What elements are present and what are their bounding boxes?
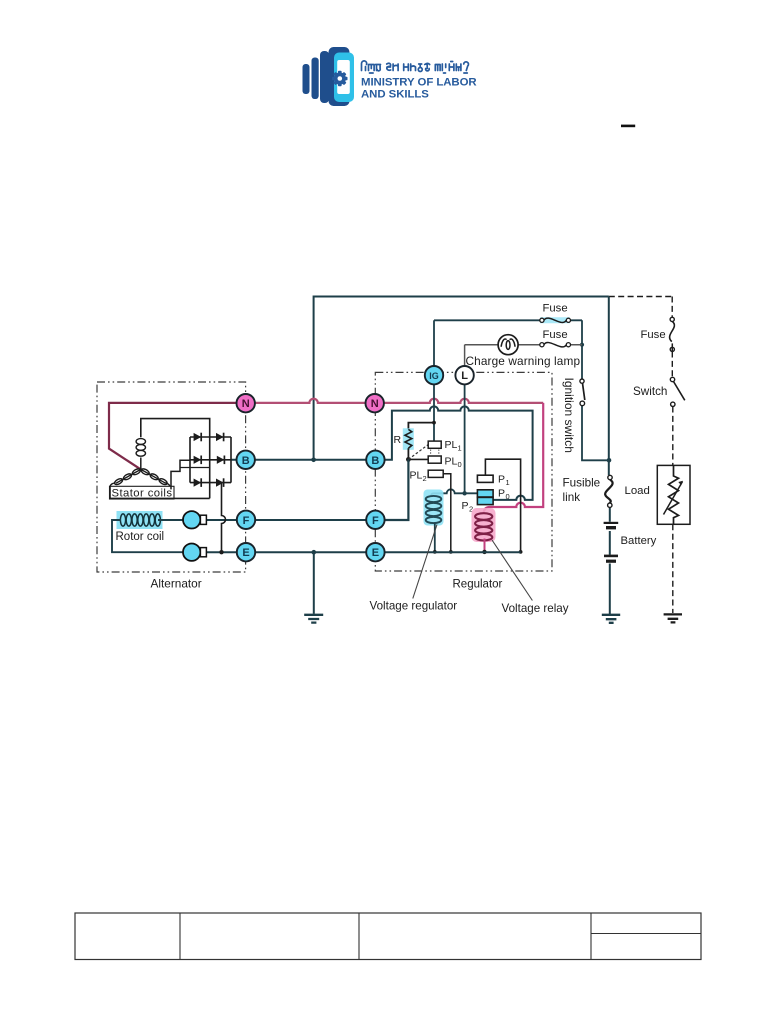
svg-text:Ignition switch: Ignition switch (562, 378, 576, 453)
wire rotor to F brush (158, 519, 183, 521)
wire battery feed (609, 297, 610, 615)
voltage relay coil (475, 513, 492, 540)
node E ground junction (312, 550, 317, 555)
stator top coil (136, 439, 145, 457)
svg-text:Charge warning lamp: Charge warning lamp (466, 354, 581, 368)
wire B to P0 (teal) (384, 406, 532, 499)
node relay bottom (482, 550, 486, 554)
terminal E (alternator) (237, 543, 255, 561)
logo screen (337, 60, 350, 94)
charge warning lamp (498, 335, 518, 355)
wire IG to PL1 (433, 385, 435, 442)
svg-text:F: F (243, 515, 250, 527)
voltage relay coil highlight (472, 508, 496, 542)
load arrow (664, 482, 683, 515)
svg-text:Alternator: Alternator (151, 577, 202, 591)
wire relay coil bottom (484, 539, 486, 552)
svg-text:0: 0 (506, 492, 510, 501)
wire R top tee (408, 423, 434, 430)
svg-text:Voltage regulator: Voltage regulator (370, 600, 458, 613)
svg-text:Battery: Battery (621, 535, 657, 547)
svg-text:Switch: Switch (633, 385, 667, 398)
svg-text:Voltage relay: Voltage relay (502, 602, 569, 615)
svg-text:B: B (371, 455, 379, 467)
wire stator phase1 to rectifier (141, 419, 210, 438)
svg-text:PL: PL (410, 470, 423, 482)
contact gap dots (431, 450, 439, 455)
regulator enclosure (dash-dot box) (375, 372, 552, 571)
ground symbol load (664, 614, 682, 622)
wire B bus alternator-regulator (231, 459, 385, 461)
node R tee (432, 421, 436, 425)
wire F line (207, 519, 409, 521)
stator right coil (140, 468, 168, 486)
logo bar 2 (312, 58, 319, 100)
wire R bottom (407, 448, 409, 459)
node B+ bus junction on B line (311, 458, 316, 463)
svg-text:PL: PL (445, 439, 458, 451)
voltage regulator coil (426, 496, 442, 523)
contact P0 upper (477, 490, 493, 497)
footer table (75, 913, 701, 960)
table outer border (75, 913, 701, 960)
svg-text:IG: IG (429, 371, 439, 381)
terminal B (regulator) (366, 451, 384, 469)
svg-text:Fuse: Fuse (641, 329, 666, 341)
ministry logo (303, 47, 477, 106)
ignition switch blade (583, 383, 585, 400)
svg-text:Fuse: Fuse (543, 303, 568, 315)
wire voltage relay feed (magenta) (484, 403, 544, 514)
svg-text:Load: Load (625, 485, 650, 497)
node coil bottom on E line (433, 550, 437, 554)
wire stator Y center (140, 458, 142, 470)
svg-text:PL: PL (445, 456, 458, 468)
terminal E (regulator) (366, 543, 384, 561)
rectifier bridge frame (190, 437, 231, 498)
battery cell 1 (604, 522, 619, 524)
terminal L (455, 366, 473, 384)
svg-text:Fuse: Fuse (543, 329, 568, 341)
svg-text:link: link (563, 491, 581, 504)
node fuse lines junction (580, 343, 584, 347)
fuse F3 (load branch) (670, 321, 675, 341)
wire rotor to E brush (112, 520, 183, 552)
rotor coil (120, 514, 160, 526)
rectifier diodes (6) (194, 433, 225, 487)
svg-text:Rotor coil: Rotor coil (116, 531, 165, 543)
fuse F1 cyan highlight (540, 317, 570, 323)
wire regulator coil top to P0 (431, 489, 477, 495)
load box (657, 465, 690, 524)
svg-text:L: L (461, 370, 468, 382)
svg-text:P: P (498, 474, 505, 486)
resistor R highlight (403, 428, 414, 450)
wire dashed top right (609, 296, 672, 298)
node rectifier-E junction (219, 550, 223, 554)
terminal N (alternator) (237, 394, 255, 412)
svg-text:1: 1 (506, 478, 510, 487)
wire B+ bus top (314, 297, 609, 460)
terminal IG (425, 366, 443, 384)
logo bar 1 (303, 64, 310, 94)
contact PL2 (428, 470, 443, 477)
svg-text:B: B (242, 455, 250, 467)
wire fuse 1 line (434, 319, 582, 321)
stator coils label box (110, 486, 175, 499)
fuse F1 (upper) (544, 318, 566, 322)
voltage regulator moving arm (dashed) (408, 445, 428, 460)
wire E to ground (313, 552, 315, 614)
wire N neutral (crimson left) (109, 403, 237, 470)
wire L to lamp line (464, 345, 466, 366)
node L junction (462, 491, 466, 495)
table last column row divider (591, 933, 701, 935)
svg-text:P: P (462, 500, 469, 512)
stator left coil (114, 468, 142, 486)
resistor R (405, 429, 412, 448)
node battery feed / ignition branch junction (607, 458, 612, 463)
alternator enclosure (dash-dot box) (97, 382, 246, 572)
wire stator phase2 (left coil to rectifier) (110, 486, 210, 498)
terminal N (regulator) (366, 394, 384, 412)
contact P1 (477, 475, 493, 482)
svg-text:Fusible: Fusible (563, 477, 601, 490)
table column dividers (180, 913, 591, 960)
wire N neutral (pink) (237, 399, 543, 403)
svg-text:Regulator: Regulator (453, 579, 503, 591)
svg-text:0: 0 (458, 460, 462, 469)
terminal F (alternator) (237, 511, 255, 529)
contact PL1 (428, 441, 441, 448)
terminal B (alternator) (237, 451, 255, 469)
wire P1 to E line (485, 459, 520, 552)
load resistor (669, 465, 679, 524)
wire load branch dashed (671, 297, 674, 614)
svg-text:1: 1 (458, 444, 462, 453)
wire charge lamp line (465, 344, 582, 346)
svg-text:P: P (498, 488, 505, 500)
ground symbol center (304, 615, 323, 623)
horizontal dash mark (621, 125, 635, 128)
ignition switch contact circles (580, 379, 584, 383)
logo cyan tablet (334, 53, 354, 103)
circuit diagram (97, 297, 690, 623)
svg-text:AND SKILLS: AND SKILLS (361, 89, 429, 101)
contact PL0 (428, 456, 441, 463)
logo amharic text (362, 61, 469, 73)
svg-text:R: R (394, 434, 402, 446)
svg-text:2: 2 (423, 474, 427, 483)
wire phase3 jog (180, 467, 210, 469)
svg-text:F: F (372, 515, 379, 527)
svg-text:E: E (242, 547, 249, 559)
logo gear (332, 71, 347, 86)
rotor coil highlight (117, 511, 163, 529)
ground symbol battery (602, 615, 620, 623)
leader voltage regulator (413, 525, 437, 599)
terminal F (regulator) (366, 511, 384, 529)
svg-text:N: N (371, 398, 379, 410)
switch (load branch) (670, 377, 674, 381)
battery cell 2 (604, 555, 618, 558)
contact P0 lower (477, 497, 493, 504)
voltage regulator coil highlight (424, 490, 444, 526)
node R/PL0/F junction (406, 457, 411, 462)
slip ring/brush F (183, 511, 200, 528)
logo dark tablet (329, 47, 350, 106)
wire stator phase3 (right coil to rectifier) (171, 460, 190, 489)
fuse F2 (lower) (544, 343, 566, 347)
wire PL2 to E line (443, 474, 450, 552)
svg-text:MINISTRY OF LABOR: MINISTRY OF LABOR (361, 77, 477, 89)
wire fuse1 to IG (433, 320, 435, 366)
wire junction to F (384, 459, 408, 520)
logo bar 3 (320, 51, 329, 103)
svg-text:E: E (372, 547, 379, 559)
leader voltage relay (492, 540, 532, 601)
fusible link (605, 480, 612, 503)
wire regulator coil bottom (434, 524, 436, 552)
wire E line (207, 551, 521, 553)
wire L to contacts (464, 385, 466, 493)
wire junction to PL0 (408, 458, 428, 460)
slip ring/brush E (183, 544, 200, 561)
wire rectifier to E line (222, 483, 226, 553)
wire ignition switch branch (582, 320, 609, 460)
svg-text:N: N (242, 398, 250, 410)
